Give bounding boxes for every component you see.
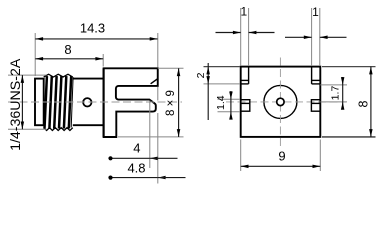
extension line lower tab bottom left <box>218 111 241 113</box>
body hole <box>83 98 91 106</box>
extension lines 8 right <box>322 66 376 68</box>
svg-text:14.3: 14.3 <box>80 20 105 35</box>
extension line fork right edge <box>157 33 159 68</box>
lower left tab <box>241 100 250 112</box>
thread diameter dimension line <box>21 75 23 129</box>
extension line prong tip / right edge <box>157 141 159 184</box>
centerline left view axis <box>8 101 182 103</box>
horizontal centerline right view <box>226 101 346 103</box>
extension line tab bottom left <box>204 83 241 85</box>
connector rear stub <box>35 79 44 126</box>
dimension 2 <box>207 63 209 120</box>
svg-text:1: 1 <box>240 4 247 18</box>
center pin circle <box>277 98 284 105</box>
dimension 14.3 <box>35 38 157 40</box>
extension line prong chamfer <box>149 101 151 169</box>
vertical centerline right view <box>279 58 281 147</box>
centerline extension right <box>320 101 347 103</box>
right view body rectangle <box>241 67 321 137</box>
svg-text:8: 8 <box>356 100 370 107</box>
dimension 9 <box>241 165 321 167</box>
upper right tab <box>311 67 313 84</box>
dimension 8 top <box>35 58 103 60</box>
svg-text:1: 1 <box>312 5 319 19</box>
svg-text:1.7: 1.7 <box>330 86 342 101</box>
svg-text:1/4-36UNS-2A: 1/4-36UNS-2A <box>8 58 24 151</box>
dimension 1.4 <box>230 91 232 120</box>
extension lines 9 <box>240 140 242 172</box>
extension line step <box>102 54 104 67</box>
extension line right edge below prong <box>157 113 159 141</box>
thread tangent extension bottom <box>8 128 47 130</box>
extension line tab bottom right <box>320 84 347 86</box>
extension line fork bottom right <box>118 136 184 138</box>
dimension 1 (left tab width) <box>216 32 241 34</box>
extension line right edge through slot <box>157 87 159 101</box>
extension lines top-left 1 <box>240 8 242 66</box>
dimension 8 x 9 line <box>178 68 180 137</box>
svg-text:1.4: 1.4 <box>215 95 227 110</box>
svg-text:9: 9 <box>278 149 285 164</box>
mounting hole outer circle <box>264 85 297 118</box>
dimension 1 (right tab width) <box>285 36 312 38</box>
fork / PCB edge slot section <box>104 68 158 137</box>
connector body <box>73 78 104 80</box>
svg-text:2: 2 <box>195 72 207 78</box>
thread tangent extension top <box>8 74 47 76</box>
dimension 8 right <box>370 67 372 137</box>
dimension 4.8 <box>111 177 158 179</box>
svg-text:4.8: 4.8 <box>127 160 145 175</box>
extension line left face <box>34 33 36 76</box>
svg-text:4: 4 <box>133 141 140 156</box>
dimension 4 <box>111 157 150 159</box>
upper left tab <box>248 67 250 84</box>
extension lines top-right 1 <box>311 8 313 66</box>
dimension 1.7 <box>342 77 344 110</box>
lower right tab <box>311 100 320 112</box>
svg-text:8 × 9: 8 × 9 <box>165 90 177 116</box>
extension line top edge left <box>204 66 241 68</box>
extension line lower tab top left <box>218 98 241 100</box>
extension line fork top right <box>158 67 184 69</box>
threaded section 1/4-36 <box>44 74 73 77</box>
top prong lead-in chamfer edge <box>151 79 158 84</box>
svg-text:8: 8 <box>64 42 71 57</box>
